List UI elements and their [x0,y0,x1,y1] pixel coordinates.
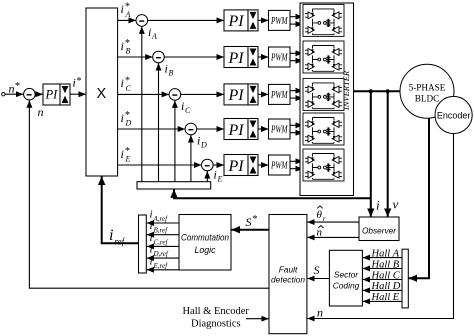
wire theta_r hat observer to fault detection [307,221,359,223]
svg-text:D,ref: D,ref [153,250,169,258]
wire X to summing D [118,128,186,130]
svg-text:D: D [125,119,132,128]
summing junction speed (minus) [24,88,36,100]
wire PI C to PWM C [258,93,269,95]
label i_D [197,133,207,149]
svg-text:PI: PI [228,13,245,30]
PI controller B [224,47,248,68]
svg-text:n: n [317,306,323,320]
svg-text:Hall B: Hall B [371,259,400,270]
feedback wire i_D [190,135,192,182]
svg-text:θ: θ [317,209,323,221]
H-bridge cell phase A [303,4,344,36]
label i*_E [121,146,131,164]
svg-text:*: * [253,214,258,225]
wire i_E,ref [147,269,179,271]
svg-text:S: S [314,263,320,277]
PWM block C [269,84,291,104]
wire current i to observer [370,91,372,217]
wire i_A,ref [147,222,179,224]
wire i_D,ref [147,257,179,259]
svg-text:i: i [197,133,200,147]
wire current measurement to feedback bus [174,189,371,198]
svg-text:B: B [169,69,174,78]
wire voltage v to observer [387,91,389,217]
svg-text:ref: ref [115,237,126,247]
junction node v tap [386,89,390,93]
svg-text:C,ref: C,ref [154,238,169,246]
svg-text:i: i [150,209,153,221]
svg-text:Encoder: Encoder [437,110,471,120]
svg-text:i: i [121,2,124,16]
svg-text:Observer: Observer [362,226,397,236]
wire summing E to PI E [213,164,224,166]
wire S* fault detection to commutation logic [232,229,270,231]
wire Hall E [363,300,402,302]
wire encoder speed n down and to fault detection [307,134,453,319]
wire PI speed to multiplier X [70,93,86,95]
wire inverter to motor [354,90,401,92]
svg-text:PI: PI [228,50,245,67]
label i_E,ref [150,255,169,270]
svg-text:Hall D: Hall D [371,281,401,292]
label theta_r hat [317,206,326,223]
svg-text:B: B [126,47,131,56]
wire PI B to PWM B [258,56,269,58]
wire summing B to PI B [164,56,224,58]
wire i_B,ref [147,234,179,236]
PI controller D [224,119,248,140]
label i_E [214,167,223,183]
multiplier X block [86,8,118,176]
svg-text:C: C [126,84,132,93]
svg-text:A,ref: A,ref [153,215,169,223]
label n hat [317,226,324,239]
svg-text:n: n [38,105,44,119]
svg-text:Hall A: Hall A [371,248,400,259]
svg-text:PWM: PWM [270,124,288,135]
svg-text:detection: detection [271,274,305,284]
H-bridge cell phase B [303,41,344,73]
observer block [359,217,399,241]
svg-text:i: i [150,220,153,232]
wire PI A to PWM A [258,19,269,21]
svg-text:i: i [376,198,380,213]
wire hall signals from motor to hall bus bar [409,118,429,278]
wire X to summing E [118,164,202,166]
svg-text:PI: PI [228,158,245,175]
label i_C,ref [150,232,169,247]
svg-text:i: i [121,147,124,161]
svg-text:X: X [97,86,107,102]
svg-text:PI: PI [228,122,245,139]
wire X to summing C [118,93,170,95]
junction node i tap [369,89,373,93]
wires PWM A to inverter [290,16,303,18]
svg-text:C: C [185,106,191,115]
svg-text:E: E [217,175,223,184]
H-bridge cell phase C [303,78,344,110]
label i_ref [109,227,126,247]
hall splitter bar [402,249,408,308]
label i* [73,76,82,90]
wires PWM D to inverter [290,124,303,126]
svg-text:PWM: PWM [270,16,288,27]
svg-text:Hall C: Hall C [371,270,401,281]
wire X to summing A [118,19,136,21]
label i_A [148,25,157,41]
summing junction A [136,15,148,27]
svg-text:i: i [73,76,76,90]
svg-text:Sector: Sector [334,270,359,280]
svg-text:Hall E: Hall E [371,292,400,303]
svg-text:PI: PI [228,87,245,104]
wire X to summing B [118,56,153,58]
svg-text:r: r [323,214,326,223]
svg-text:Fault: Fault [279,264,298,274]
PI speed controller [43,84,60,105]
PI controller E [224,155,248,176]
motor 5-PHASE BLDC [400,64,454,118]
svg-text:PWM: PWM [270,90,288,101]
svg-text:i: i [121,111,124,125]
wire diagnostics into fault detection [246,318,269,320]
wires PWM B to inverter [290,52,303,54]
svg-text:S: S [246,215,252,229]
label n* [9,81,21,96]
limiter C [248,84,258,105]
limiter E [248,155,258,176]
wire summing junction to PI speed [35,93,43,95]
label i_C [181,99,191,115]
svg-text:Logic: Logic [194,245,216,255]
feedback wire i_E [206,171,208,182]
svg-text:Commutation: Commutation [181,232,229,242]
PI controller C [224,84,248,105]
wires PWM E to inverter [290,160,303,162]
PWM block A [269,10,291,30]
svg-text:PWM: PWM [270,52,288,63]
wires PWM C to inverter [290,90,303,92]
sector coding block [329,250,362,306]
summing junction B [153,51,165,63]
fault detection block [269,215,307,334]
label i_A,ref [150,209,169,224]
svg-text:5-PHASE: 5-PHASE [409,83,446,93]
wire n hat observer to fault detection [307,236,359,238]
wire Hall C [363,279,402,281]
svg-text:E: E [125,155,131,164]
svg-text:i: i [181,99,184,113]
svg-text:i: i [165,61,168,75]
svg-text:PWM: PWM [270,160,288,171]
wire Hall D [363,289,402,291]
encoder [435,96,472,133]
summing junction C [169,89,181,101]
label S* [246,214,258,229]
reference currents splitter bar [139,215,147,273]
limiter speed [60,84,70,105]
svg-text:*: * [77,76,82,87]
svg-text:Hall & Encoder: Hall & Encoder [182,306,249,317]
svg-text:i: i [148,25,151,39]
limiter A [248,10,258,31]
wire PI D to PWM D [258,128,269,130]
svg-text:i: i [121,39,124,53]
label i*_B [121,38,131,56]
label Hall & Encoder Diagnostics [182,306,249,330]
label i*_A [121,2,131,20]
wire summing A to PI A [148,19,224,21]
svg-text:i: i [121,76,124,90]
summing junction D [185,123,197,135]
svg-text:A: A [151,32,157,41]
limiter D [248,119,258,140]
svg-text:PI: PI [45,88,59,102]
wire S sector coding to fault detection [307,278,329,280]
PWM block B [269,47,291,67]
wire i_C,ref [147,245,179,247]
svg-text:i: i [150,232,153,244]
svg-text:n: n [9,82,15,96]
wire PI E to PWM E [258,164,269,166]
label i_D,ref [150,244,169,259]
wire i_ref into X bottom [102,177,139,244]
feedback wire i_C [174,100,176,181]
H-bridge cell phase D [303,113,344,145]
commutation logic block [179,215,231,271]
wire summing D to PI D [197,128,224,130]
svg-text:i: i [214,167,217,181]
feedback wire n to summing junction [29,100,269,288]
svg-text:i: i [150,255,153,267]
svg-text:*: * [15,81,20,92]
svg-text:Diagnostics: Diagnostics [191,319,241,330]
svg-text:A: A [125,10,131,19]
label i*_C [121,76,132,94]
svg-text:E,ref: E,ref [153,262,169,270]
wire n* to summing junction [5,93,23,95]
PWM block E [269,155,291,175]
label i_B [165,61,174,77]
PWM block D [269,119,291,139]
svg-text:BLDC: BLDC [415,94,440,104]
svg-text:n: n [317,226,323,238]
PI controller A [224,10,248,31]
wire Hall B [363,268,402,270]
svg-text:i: i [150,244,153,256]
summing junction E [202,159,214,171]
input terminal n* [2,93,5,96]
svg-text:D: D [200,141,207,150]
current feedback bus bar [137,182,211,189]
feedback wire i_A [141,26,143,181]
feedback wire i_B [158,63,160,182]
label i_B,ref [150,220,169,235]
limiter B [248,47,258,68]
svg-text:v: v [393,197,399,212]
svg-text:B,ref: B,ref [154,227,169,235]
wire Hall A [363,257,402,259]
inverter outer box [300,3,354,196]
svg-text:i: i [109,227,113,244]
wire summing C to PI C [181,93,224,95]
svg-text:Coding: Coding [333,281,360,291]
label i*_D [121,110,132,128]
H-bridge cell phase E [303,149,344,181]
